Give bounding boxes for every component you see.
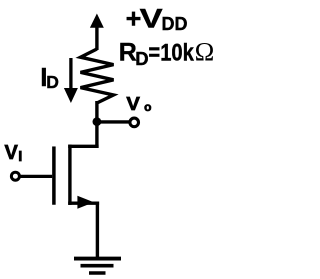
ground bbox=[74, 259, 121, 273]
power arrow to +VDD supply bbox=[90, 14, 104, 51]
svg-text:I: I bbox=[18, 149, 22, 165]
terminal Vo open circle bbox=[130, 118, 139, 127]
svg-text:V: V bbox=[126, 94, 139, 114]
label VI bbox=[5, 142, 23, 165]
svg-text:V: V bbox=[5, 142, 19, 164]
wire drain horizontal bbox=[68, 145, 98, 148]
transistor Q1 gate bar bbox=[52, 148, 56, 203]
svg-text:D: D bbox=[46, 72, 59, 92]
transistor Q1 channel bar bbox=[68, 145, 71, 205]
wire drain rail (resistor bottom through node to drain corner) bbox=[95, 101, 98, 148]
svg-text:o: o bbox=[144, 100, 151, 114]
svg-text:=10k: =10k bbox=[148, 40, 194, 67]
node drain junction dot bbox=[93, 117, 102, 126]
svg-text:R: R bbox=[119, 39, 137, 67]
label Vo bbox=[126, 94, 151, 114]
svg-text:V: V bbox=[140, 4, 163, 34]
wire source horizontal bbox=[68, 201, 99, 204]
wire gate bbox=[19, 175, 52, 178]
wire source to ground bbox=[96, 202, 99, 258]
terminal VI open circle bbox=[11, 172, 19, 180]
transistor Q1 source arrow bbox=[77, 196, 93, 209]
wire output bbox=[97, 120, 131, 123]
resistor RD bbox=[81, 49, 114, 103]
svg-text:Ω: Ω bbox=[195, 37, 215, 67]
svg-text:DD: DD bbox=[162, 14, 188, 34]
current arrow ID bbox=[64, 58, 78, 103]
svg-text:D: D bbox=[135, 48, 148, 69]
label ID bbox=[40, 62, 59, 92]
label RD=10kOhm bbox=[119, 37, 215, 69]
label +VDD bbox=[126, 4, 188, 34]
